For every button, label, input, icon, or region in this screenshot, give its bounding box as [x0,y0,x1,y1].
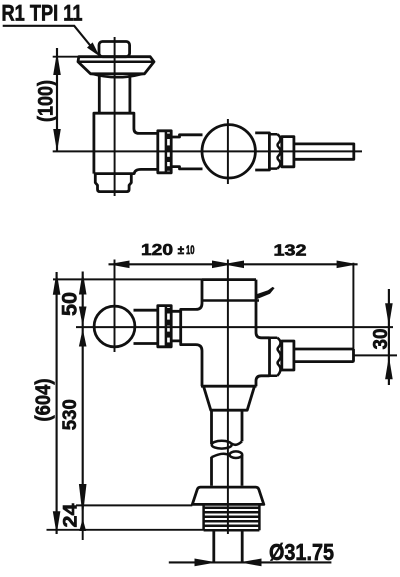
valve body right side with outlet step [256,280,270,338]
svg-text:Ø31.75: Ø31.75 [269,539,334,565]
valve ball circle (top view) [202,125,255,178]
outlet ribbed ring (front view) [268,338,271,376]
svg-text:50: 50 [58,292,82,316]
pipe break symbol [212,441,243,458]
lower cone of body [204,386,255,410]
flow direction mark [256,287,275,299]
dimension 50 / 530 / 24 line [79,272,87,541]
outlet nut (front view) [282,341,294,370]
dimension (604) [31,272,61,535]
button coupling nut (front view) [158,306,171,347]
valve body left side with inlet boss [181,280,202,387]
ribbed ring (top view) [269,134,277,168]
pipe segment between nut and ball (top view) [171,135,202,169]
outlet thin pipe (front view) [294,349,354,362]
button stem 2 [171,311,181,341]
horizontal centerline of pipe axis (top view) [53,150,362,152]
svg-text:30: 30 [370,329,392,350]
bottom tube [214,530,242,562]
inlet cap (top view) [99,42,130,57]
inlet flange (top view) [78,57,154,74]
outlet nut (top view) [282,137,294,167]
extension line right at pipe end [352,263,354,363]
vertical centerline of valve ball circle (top view) [227,119,229,184]
upper down tube [212,410,243,444]
leader line for R1 TPI 11 [3,26,100,57]
push button circle (front view) [94,306,135,347]
extension/centerline of body (vertical) [227,260,229,535]
svg-text:(604): (604) [31,379,55,422]
dimension 30 [370,289,393,385]
svg-text:(100): (100) [34,80,58,122]
spud flange [192,487,263,504]
dimension line 120 / 132 [109,261,358,269]
extension line at button axis (vertical) [114,260,116,353]
svg-text:±: ± [178,245,185,257]
thin outlet pipe (top view) [294,144,354,159]
body parting line [201,299,259,302]
extension line 24 top [76,504,192,506]
knurl marks button nut [167,308,172,347]
label R1 TPI 11 [2,0,83,25]
body bottom with fillet to pipe (top view) [94,169,158,173]
extension line bottom [47,529,204,531]
svg-text:24: 24 [60,503,82,527]
button axis line across [76,326,393,328]
pipe segment right of ball (top view) [255,133,269,170]
svg-text:10: 10 [186,245,195,257]
valve body under outlet [256,376,270,386]
vertical centerline of inlet cap (top view) [114,37,116,196]
dimension diameter 31.75 [169,539,334,567]
svg-text:530: 530 [59,399,81,430]
threaded section [204,504,260,530]
valve body top (front view) [202,278,256,281]
lower down tube [212,455,243,486]
flange bottom arc [92,74,143,78]
valve body (top view) [94,113,158,173]
dimension (100) [34,48,80,152]
button stem 1 [134,310,158,343]
body foot (top view) [95,174,131,192]
svg-text:132: 132 [274,242,307,259]
body bottom line [201,385,257,388]
svg-text:R1 TPI 11: R1 TPI 11 [2,0,83,25]
outlet pipe axis extension [354,354,398,356]
coupling nut 1 (top view) [158,131,171,173]
svg-text:120: 120 [141,242,173,259]
inlet neck (top view) [99,75,130,114]
extension line from dims to body top [53,278,202,280]
knurl marks nut 1 (top view) [167,134,172,171]
